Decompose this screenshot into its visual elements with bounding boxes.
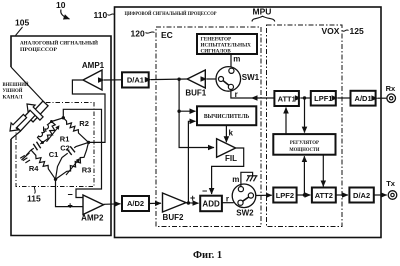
svg-text:105: 105 bbox=[15, 18, 29, 28]
wire bridge top vertex to AMP2 minus bbox=[63, 109, 101, 197]
svg-text:C1: C1 bbox=[49, 150, 59, 159]
resistor R4 bbox=[31, 150, 56, 179]
wire D/A2 to Tx bbox=[374, 194, 387, 196]
svg-text:m: m bbox=[233, 55, 240, 64]
svg-text:УШНОЙ: УШНОЙ bbox=[3, 86, 24, 94]
resistor R2 bbox=[63, 118, 88, 143]
resistor R1 bbox=[43, 122, 56, 143]
low pass filter LPF1 bbox=[311, 91, 336, 106]
adder ADD bbox=[200, 196, 222, 212]
switch SW2 bbox=[232, 175, 256, 218]
wire BUF1 branch down to computing unit and FIL bbox=[179, 79, 214, 147]
svg-text:EC: EC bbox=[161, 30, 173, 40]
svg-text:LPF1: LPF1 bbox=[314, 94, 332, 103]
wire Rx to A/D1 bbox=[377, 97, 387, 99]
ADC A/D1 bbox=[351, 91, 376, 106]
attenuator ATT2 bbox=[312, 188, 336, 203]
svg-text:m: m bbox=[232, 175, 239, 184]
wire ADD to SW2 bbox=[222, 202, 234, 204]
test signal generator bbox=[197, 34, 257, 54]
wire BUF2 to ADD bbox=[186, 202, 199, 204]
svg-text:AMP2: AMP2 bbox=[81, 214, 104, 223]
wire LPF2/ATT2 junction up into regulator bbox=[303, 156, 305, 195]
wire AMP2 to A/D2 bbox=[104, 203, 121, 206]
svg-text:ADD: ADD bbox=[202, 199, 220, 208]
wire ATT2 to D/A2 bbox=[336, 194, 348, 196]
arrow through R1 bbox=[47, 127, 59, 142]
k wire computing unit to FIL bbox=[225, 126, 227, 143]
ear canal lower wall bbox=[11, 131, 21, 139]
DAC D/A1 bbox=[122, 72, 149, 87]
wire AMP1 output to bridge right vertex bbox=[72, 80, 105, 142]
amplifier AMP2 bbox=[68, 190, 104, 223]
ADC A/D2 bbox=[122, 196, 149, 211]
Tx terminal bbox=[386, 179, 397, 200]
EC dashed box 120 bbox=[156, 27, 261, 227]
svg-text:АНАЛОГОВЫЙ СИГНАЛЬНЫЙ: АНАЛОГОВЫЙ СИГНАЛЬНЫЙ bbox=[20, 39, 99, 47]
FIL output hook to ADD minus bbox=[212, 148, 244, 194]
filter FIL bbox=[217, 139, 238, 163]
svg-text:r: r bbox=[226, 194, 229, 203]
wire SW2 to LPF2 bbox=[256, 194, 272, 196]
svg-text:115: 115 bbox=[27, 194, 41, 204]
svg-text:Rx: Rx bbox=[386, 84, 396, 93]
bridge dashed box 115 bbox=[16, 103, 94, 187]
svg-text:R3: R3 bbox=[82, 165, 92, 174]
wire LPF2 to ATT2 bbox=[297, 194, 311, 196]
svg-text:L: L bbox=[43, 125, 48, 134]
svg-text:РЕГУЛЯТОР: РЕГУЛЯТОР bbox=[290, 140, 320, 146]
svg-text:−: − bbox=[68, 190, 73, 200]
computing unit bbox=[197, 106, 256, 125]
sound arrow down-left bbox=[10, 114, 27, 131]
ground (chassis) at SW2 bbox=[247, 176, 258, 182]
svg-text:10: 10 bbox=[56, 0, 66, 10]
wire junction down to regulator bbox=[304, 98, 306, 133]
svg-text:LPF2: LPF2 bbox=[276, 191, 294, 200]
svg-text:120: 120 bbox=[131, 29, 145, 39]
wire SW1 r down and to ATT1 bbox=[231, 90, 275, 99]
svg-text:SW1: SW1 bbox=[242, 73, 260, 82]
capacitor C2 branch bbox=[56, 142, 89, 179]
wire A/D1 to LPF1 bbox=[338, 97, 351, 99]
svg-text:MPU: MPU bbox=[253, 7, 272, 17]
sound arrow up-left bbox=[27, 104, 43, 120]
switch SW1 bbox=[216, 67, 260, 99]
transducer bar lower bbox=[15, 110, 35, 131]
DAC D/A2 bbox=[349, 188, 373, 203]
svg-text:AMP1: AMP1 bbox=[82, 61, 105, 70]
wire bridge bottom vertex to AMP2 plus bbox=[56, 179, 84, 206]
svg-text:ЦИФРОВОЙ СИГНАЛЬНЫЙ ПРОЦЕССОР: ЦИФРОВОЙ СИГНАЛЬНЫЙ ПРОЦЕССОР bbox=[125, 9, 218, 17]
svg-text:R4: R4 bbox=[29, 164, 39, 173]
svg-text:110: 110 bbox=[94, 10, 108, 20]
SW2 m contact to ground bbox=[241, 172, 253, 186]
inductor L bbox=[38, 122, 52, 143]
wire generator to SW1 m bbox=[230, 54, 232, 68]
svg-text:125: 125 bbox=[350, 26, 364, 36]
wire SW1 to BUF1 bbox=[207, 78, 217, 80]
svg-text:СИГНАЛОВ: СИГНАЛОВ bbox=[201, 48, 232, 54]
analog signal processor box 105 bbox=[11, 36, 111, 236]
wire regulator down to ATT2 bbox=[322, 155, 324, 187]
svg-text:+: + bbox=[68, 201, 73, 211]
buffer BUF1 bbox=[185, 70, 206, 98]
svg-text:k: k bbox=[229, 128, 234, 137]
wire BUF1 to D/A1 bbox=[151, 78, 187, 81]
power regulator bbox=[273, 134, 335, 155]
svg-text:МОЩНОСТИ: МОЩНОСТИ bbox=[289, 147, 319, 153]
VOX dash-dot box 125 bbox=[267, 25, 343, 227]
svg-text:BUF1: BUF1 bbox=[185, 89, 206, 98]
amplifier AMP1 bbox=[82, 61, 105, 90]
svg-text:C2: C2 bbox=[60, 143, 70, 152]
wire A/D2 to BUF2 bbox=[149, 202, 161, 204]
svg-text:R1: R1 bbox=[60, 135, 70, 144]
bridge junction dots bbox=[62, 116, 65, 119]
buffer BUF2 bbox=[163, 193, 187, 222]
svg-text:ATT1: ATT1 bbox=[278, 94, 296, 103]
svg-text:−: − bbox=[202, 186, 207, 196]
attenuator ATT1 bbox=[274, 91, 299, 106]
wire LPF1 to ATT1 bbox=[301, 97, 311, 99]
wire regulator up to ATT1 bbox=[285, 108, 287, 135]
svg-text:BUF2: BUF2 bbox=[163, 213, 184, 222]
svg-text:A/D2: A/D2 bbox=[127, 199, 144, 208]
transducer bar upper bbox=[28, 101, 48, 122]
svg-text:D/A1: D/A1 bbox=[127, 76, 144, 85]
capacitor C1 bbox=[31, 143, 43, 151]
arrow through R3 bbox=[66, 160, 79, 175]
svg-text:R2: R2 bbox=[79, 119, 89, 128]
arrowhead on r wire bbox=[251, 95, 258, 101]
svg-text:+: + bbox=[190, 193, 195, 203]
svg-text:A/D1: A/D1 bbox=[355, 94, 372, 103]
bridge diamond wires bbox=[31, 118, 89, 180]
svg-text:D/A2: D/A2 bbox=[353, 191, 370, 200]
svg-text:SW2: SW2 bbox=[236, 209, 254, 218]
svg-text:ATT2: ATT2 bbox=[315, 191, 333, 200]
node top vertex to split bbox=[52, 118, 64, 122]
wire D/A1 to AMP1 bbox=[104, 79, 122, 81]
svg-text:ВЫЧИСЛИТЕЛЬ: ВЫЧИСЛИТЕЛЬ bbox=[204, 114, 250, 120]
junction on BUF1 output bbox=[177, 78, 180, 81]
ear canal upper wall bbox=[11, 67, 43, 101]
svg-text:VOX: VOX bbox=[322, 26, 340, 36]
svg-text:FIL: FIL bbox=[225, 154, 237, 163]
Rx terminal bbox=[386, 84, 396, 103]
digital signal processor box 110 bbox=[115, 7, 382, 238]
svg-text:Tx: Tx bbox=[386, 179, 396, 188]
svg-text:КАНАЛ: КАНАЛ bbox=[3, 95, 24, 101]
svg-text:ПРОЦЕССОР: ПРОЦЕССОР bbox=[20, 47, 58, 53]
svg-text:ВНЕШНИЙ: ВНЕШНИЙ bbox=[3, 80, 30, 88]
ground at bridge left vertex bbox=[26, 150, 31, 156]
low pass filter LPF2 bbox=[273, 188, 296, 203]
svg-text:Фиг. 1: Фиг. 1 bbox=[193, 250, 222, 261]
resistor R3 branch bbox=[56, 142, 89, 179]
wire BUF2 branch up to computing unit bbox=[188, 121, 195, 203]
